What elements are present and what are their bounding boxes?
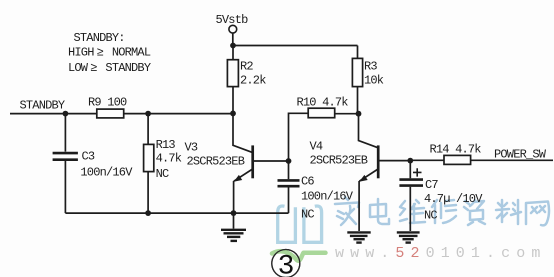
junction G (V3 base / C6 / R10 left): [286, 158, 292, 164]
wire bottom rail: [65, 212, 288, 214]
svg-text:V3: V3: [185, 141, 198, 155]
svg-text:C7: C7: [425, 178, 438, 192]
annotation STANDBY legend: [68, 31, 151, 75]
svg-text:R3: R3: [364, 60, 377, 74]
ground G3 (C7): [397, 232, 420, 242]
svg-text:100n/16V: 100n/16V: [301, 190, 354, 204]
resistor R10: [289, 96, 359, 162]
svg-text:2SCR523EB: 2SCR523EB: [187, 155, 245, 169]
svg-text:V4: V4: [310, 140, 323, 154]
watermark logo (open book): [278, 206, 322, 242]
junction C (R13 bottom on rail): [145, 210, 151, 216]
svg-text:www.520101.com: www.520101.com: [335, 245, 546, 262]
svg-text:NC: NC: [424, 209, 437, 223]
capacitor C6: [278, 161, 354, 222]
svg-text:STANDBY:: STANDBY:: [74, 31, 125, 45]
page number 3 (circled): [272, 250, 326, 277]
ground G2 (V4 emitter): [347, 232, 370, 242]
junction I (V4 base / C7 / R14 left): [407, 158, 413, 164]
svg-text:2SCR523EB: 2SCR523EB: [310, 154, 368, 168]
svg-text:R13: R13: [156, 138, 176, 152]
svg-text:R9 100: R9 100: [88, 96, 127, 110]
svg-text:LOW≥STANDBY: LOW≥STANDBY: [68, 61, 151, 75]
wire 5V top rail: [233, 45, 358, 47]
ground G1 (V3 emitter): [221, 213, 246, 241]
svg-text:NC: NC: [156, 167, 169, 181]
svg-text:STANDBY: STANDBY: [20, 99, 65, 113]
junction A (R9 left / C3): [63, 111, 69, 117]
terminal 5Vstb: [216, 13, 249, 46]
svg-text:100n/16V: 100n/16V: [80, 166, 133, 180]
resistor R9: [88, 96, 127, 118]
transistor V4: [310, 114, 411, 231]
capacitor C7: [399, 161, 483, 231]
junction F (R2 bottom / standby wire / V3 collector): [230, 111, 236, 117]
junction E (5V rail split): [230, 43, 236, 49]
svg-text:R2: R2: [240, 60, 253, 74]
svg-text:4.7µ /10V: 4.7µ /10V: [424, 192, 483, 206]
wire standby horizontal: [10, 113, 233, 115]
svg-text:NC: NC: [301, 208, 314, 222]
capacitor C3: [53, 114, 134, 214]
resistor R3: [352, 46, 383, 114]
svg-text:10k: 10k: [364, 74, 384, 88]
svg-text:R10 4.7k: R10 4.7k: [297, 96, 349, 110]
svg-text:C3: C3: [82, 150, 95, 164]
junction B (R13 top): [145, 111, 151, 117]
svg-text:4.7k: 4.7k: [156, 152, 182, 166]
watermark url www.520101.com: [335, 245, 546, 262]
resistor R2: [227, 46, 266, 114]
transistor V3: [185, 113, 289, 213]
watermark chinese text 家电维修资料网: [335, 197, 549, 225]
junction H (R3 bottom / R10 right / V4 collector): [356, 111, 362, 117]
resistor R14: [410, 143, 553, 165]
svg-text:2.2k: 2.2k: [240, 74, 266, 88]
resistor R13: [144, 114, 182, 214]
svg-text:3: 3: [278, 252, 295, 277]
svg-text:C6: C6: [301, 175, 314, 189]
svg-text:R14 4.7k: R14 4.7k: [430, 143, 482, 157]
svg-text:POWER_SW: POWER_SW: [494, 148, 547, 162]
junction D (V3 emitter on rail): [231, 210, 237, 216]
